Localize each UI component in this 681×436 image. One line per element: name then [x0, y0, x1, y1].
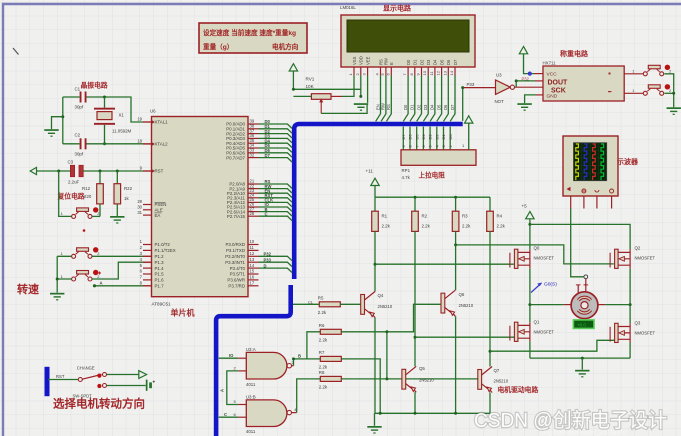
wire [116, 204, 118, 216]
svg-text:IO: IO [229, 353, 234, 358]
wire [536, 94, 543, 96]
svg-text:P3.6/WR: P3.6/WR [227, 278, 245, 283]
svg-text:VEE: VEE [365, 56, 370, 65]
capacitor C3 [68, 160, 84, 185]
svg-text:P3.4/T0: P3.4/T0 [230, 266, 246, 271]
svg-text:ALE: ALE [155, 208, 163, 213]
wire [92, 262, 143, 279]
wire [56, 256, 58, 292]
svg-text:2N5210: 2N5210 [378, 304, 393, 309]
wire A [95, 285, 144, 287]
wire [534, 73, 543, 75]
wire [143, 255, 152, 257]
wire [340, 303, 360, 305]
svg-text:13: 13 [442, 70, 447, 75]
wire EN [376, 76, 381, 122]
junction [528, 303, 531, 306]
svg-text:单片机: 单片机 [171, 308, 195, 318]
svg-text:D4: D4 [421, 134, 426, 140]
svg-text:RW: RW [381, 103, 386, 110]
svg-text:D5: D5 [436, 104, 441, 110]
wire D5 [437, 76, 442, 122]
junction [581, 357, 584, 360]
svg-text:2.2k: 2.2k [319, 385, 328, 390]
svg-text:XTAL2: XTAL2 [155, 142, 169, 147]
wire DOUT [516, 80, 535, 82]
wire RST [37, 170, 71, 172]
wire [238, 416, 246, 418]
ground [44, 129, 58, 137]
svg-text:17: 17 [250, 281, 255, 286]
junction [93, 284, 96, 287]
svg-text:P1.5: P1.5 [155, 272, 165, 277]
svg-text:2N5210: 2N5210 [459, 303, 474, 308]
resistor R1 [372, 211, 391, 231]
wire [529, 268, 531, 322]
resistor R6 [319, 323, 342, 343]
power [139, 371, 147, 379]
wire [341, 304, 441, 332]
svg-text:30: 30 [137, 205, 142, 210]
svg-text:+0.0: +0.0 [577, 322, 586, 327]
svg-text:D5: D5 [414, 134, 419, 140]
wire RW [259, 189, 293, 193]
svg-text:P3.2/INT0: P3.2/INT0 [225, 254, 245, 259]
svg-text:15: 15 [250, 269, 255, 274]
wire [535, 80, 543, 82]
svg-text:电机驱动电路: 电机驱动电路 [498, 385, 539, 394]
svg-text:29: 29 [137, 199, 142, 204]
wire RW [381, 76, 386, 122]
wire Q3 gate [490, 340, 615, 351]
wire CLK [259, 202, 293, 206]
svg-text:U3:A: U3:A [246, 347, 256, 352]
power [289, 64, 297, 71]
svg-text:P33: P33 [467, 82, 475, 87]
svg-text:上拉电阻: 上拉电阻 [419, 171, 446, 180]
power [519, 47, 527, 54]
wire [443, 127, 445, 150]
junction [672, 92, 675, 95]
wire [374, 413, 376, 426]
wire [341, 378, 478, 380]
svg-text:C: C [224, 412, 227, 417]
node mark [83, 229, 86, 232]
svg-text:D2: D2 [419, 59, 424, 65]
transistor Q7 [478, 367, 509, 393]
svg-text:示波器: 示波器 [616, 157, 639, 166]
svg-text:D1: D1 [441, 134, 446, 140]
power [526, 212, 534, 219]
wire IO [219, 357, 239, 359]
svg-text:RS: RS [378, 59, 383, 65]
motor [571, 292, 598, 319]
svg-text:D1: D1 [413, 59, 418, 65]
svg-text:显示电路: 显示电路 [383, 4, 412, 13]
wire D [259, 268, 293, 272]
svg-text:晶振电路: 晶振电路 [81, 81, 108, 90]
wire [374, 231, 376, 291]
junction [99, 170, 102, 173]
crystal X1 [94, 108, 132, 134]
svg-text:2.2k: 2.2k [319, 365, 328, 370]
svg-text:NOT: NOT [495, 99, 505, 104]
motor display [573, 320, 594, 329]
svg-text:RV1: RV1 [306, 77, 315, 82]
svg-text:13: 13 [250, 257, 255, 262]
wire [293, 303, 319, 305]
svg-text:CHANGE: CHANGE [77, 366, 95, 371]
junction [61, 115, 64, 118]
svg-text:P1.2: P1.2 [155, 254, 165, 259]
wire [624, 92, 643, 94]
button speed1 [61, 247, 101, 258]
logic gate U3:B 4011 [246, 395, 292, 435]
svg-text:11: 11 [250, 245, 255, 250]
wire VDD [360, 76, 362, 97]
wire [143, 121, 152, 123]
transistor Q1 [510, 320, 555, 342]
wire D0 [259, 124, 293, 128]
wire RST [48, 379, 78, 381]
wire RS [387, 76, 392, 122]
svg-text:Q1: Q1 [534, 320, 540, 325]
svg-text:XTAL1: XTAL1 [155, 120, 169, 125]
svg-text:D0: D0 [448, 134, 453, 140]
transistor Q2 [610, 246, 655, 269]
junction [454, 196, 457, 199]
resistor R12 [82, 184, 103, 204]
wire [414, 197, 416, 211]
svg-text:SCK: SCK [551, 87, 566, 94]
wire [436, 127, 438, 150]
op-amp U3 NOT [495, 73, 515, 105]
svg-text:10: 10 [422, 70, 427, 75]
IC U6 AT89C51 [137, 109, 258, 307]
junction [57, 170, 60, 173]
wire [664, 74, 673, 107]
bus D0-D7 [294, 124, 463, 279]
svg-text:1k: 1k [124, 196, 129, 201]
wire [530, 304, 564, 306]
wire P33 [462, 88, 464, 121]
wire [87, 97, 144, 122]
LCD U1 LM016L [340, 5, 475, 76]
wire [374, 186, 376, 198]
oscilloscope [563, 136, 618, 209]
wire [515, 81, 517, 87]
svg-text:P3.0/RXD: P3.0/RXD [225, 242, 245, 247]
wire [57, 256, 71, 279]
wire [341, 359, 380, 413]
svg-text:+5: +5 [522, 204, 528, 209]
svg-text:EN: EN [375, 104, 380, 110]
button reset [61, 207, 101, 218]
wire [83, 170, 143, 172]
wire [374, 197, 376, 211]
svg-text:U6: U6 [150, 109, 156, 114]
svg-text:VDD: VDD [359, 56, 364, 65]
svg-text:EA: EA [155, 213, 161, 218]
wire [416, 127, 418, 150]
wire [455, 316, 457, 413]
svg-text:LM016L: LM016L [340, 5, 356, 10]
junction [103, 96, 106, 99]
wire [664, 92, 673, 94]
svg-text:D6: D6 [408, 134, 413, 140]
ground [667, 107, 681, 115]
wire [402, 127, 404, 150]
svg-text:P3.3/INT1: P3.3/INT1 [225, 260, 245, 265]
junction [359, 95, 362, 98]
junction [489, 350, 492, 353]
ground [354, 103, 368, 111]
wire VCC [524, 54, 535, 74]
wire [87, 143, 144, 145]
svg-text:R5: R5 [318, 295, 324, 300]
wire [59, 171, 72, 216]
svg-text:转速: 转速 [17, 282, 39, 296]
junction [528, 223, 531, 226]
svg-text:D5: D5 [439, 59, 444, 65]
wire [331, 95, 342, 97]
svg-text:12: 12 [250, 251, 255, 256]
svg-text:28: 28 [250, 211, 255, 216]
wire [92, 255, 143, 257]
svg-text:19: 19 [137, 117, 142, 122]
wire [414, 392, 416, 413]
svg-text:D3: D3 [426, 59, 431, 65]
wire D5 [259, 148, 293, 152]
text box [199, 23, 307, 53]
wire [62, 97, 64, 144]
capacitor C2 [75, 133, 87, 157]
svg-text:RST: RST [155, 169, 164, 174]
wire D7 [259, 158, 293, 162]
svg-text:18: 18 [137, 139, 142, 144]
svg-text:NMOSFET: NMOSFET [635, 256, 656, 261]
svg-text:R4: R4 [497, 213, 503, 218]
svg-text:B: B [298, 354, 301, 359]
wire [238, 370, 246, 372]
node G0(S) probe [531, 282, 557, 293]
svg-text:R6: R6 [319, 323, 325, 328]
svg-text:U3:B: U3:B [246, 395, 256, 400]
wire [449, 127, 451, 150]
svg-text:R7: R7 [319, 350, 325, 355]
svg-text:Q4: Q4 [378, 293, 384, 298]
wire [605, 304, 630, 306]
svg-text:16: 16 [250, 275, 255, 280]
wire D3 [423, 76, 428, 122]
wire [489, 231, 491, 366]
wire [581, 358, 583, 370]
wire [578, 279, 586, 293]
junction [454, 412, 457, 415]
switch SW-SPDT [73, 373, 107, 399]
svg-text:D2: D2 [416, 104, 421, 110]
svg-text:E: E [389, 62, 394, 65]
wire Q2 gate [456, 245, 614, 264]
svg-text:D3: D3 [423, 104, 428, 110]
wire [63, 96, 80, 98]
svg-text:4.7k: 4.7k [402, 175, 411, 180]
svg-text:2N5210: 2N5210 [419, 378, 434, 383]
wire [463, 87, 496, 89]
wire [515, 86, 544, 88]
svg-text:P0.7/AD7: P0.7/AD7 [226, 155, 245, 160]
svg-text:12: 12 [436, 70, 441, 75]
wire [386, 332, 388, 379]
svg-text:P1.0/T2: P1.0/T2 [155, 242, 171, 247]
junction [414, 412, 417, 415]
wire VEE [367, 76, 369, 103]
wire [529, 219, 531, 249]
svg-text:2.2k: 2.2k [318, 310, 327, 315]
svg-text:VCC: VCC [547, 71, 558, 77]
wire [107, 385, 146, 387]
svg-text:D1: D1 [410, 104, 415, 110]
wire D4 [259, 143, 293, 147]
wire scope A [571, 209, 584, 277]
wire +11 rail [375, 196, 490, 198]
svg-text:C3: C3 [68, 160, 74, 165]
wire gnd rail [530, 357, 630, 359]
button [632, 65, 672, 76]
IC HX711 [543, 61, 625, 101]
wire [489, 197, 491, 211]
junction [515, 79, 518, 82]
transistor Q3 [610, 321, 655, 343]
node motor pin [584, 275, 588, 279]
svg-text:R1: R1 [382, 213, 388, 218]
wire [629, 268, 631, 323]
ground [367, 426, 381, 434]
svg-text:RP1: RP1 [402, 168, 411, 173]
wire [92, 215, 100, 217]
svg-text:10K: 10K [306, 84, 315, 89]
power [30, 167, 36, 174]
wire P33 [259, 262, 293, 266]
svg-text:D0: D0 [406, 59, 411, 65]
wire [598, 304, 605, 306]
junction [414, 196, 417, 199]
wire wiper [321, 105, 367, 114]
svg-text:A: A [220, 389, 225, 392]
svg-text:Q2: Q2 [635, 246, 641, 251]
wire [293, 95, 311, 97]
wire [564, 304, 571, 306]
svg-text:31: 31 [137, 210, 142, 215]
wire [422, 127, 424, 150]
wire [238, 357, 246, 359]
wire GND [525, 95, 536, 103]
wire [429, 127, 431, 150]
svg-text:Q5: Q5 [419, 366, 425, 371]
svg-text:P1.6: P1.6 [155, 278, 165, 283]
svg-text:+11: +11 [366, 169, 374, 174]
junction [385, 377, 388, 380]
bus [216, 285, 291, 436]
svg-text:2.2k: 2.2k [462, 223, 471, 228]
svg-text:2.2k: 2.2k [319, 338, 328, 343]
svg-text:D7: D7 [453, 59, 458, 65]
svg-text:P1.7: P1.7 [155, 284, 165, 289]
svg-text:P3.5/T1: P3.5/T1 [230, 272, 246, 277]
svg-text:Q3: Q3 [635, 321, 641, 326]
svg-text:R8: R8 [319, 370, 325, 375]
wire A [227, 371, 238, 405]
bus stub [45, 367, 50, 396]
svg-text:blog.csdn.net/weixin_20238867: blog.csdn.net/weixin_20238867 [540, 430, 627, 436]
svg-text:4011: 4011 [246, 382, 256, 387]
wire [143, 143, 152, 145]
transistor Q6 [441, 290, 474, 316]
svg-text:10: 10 [250, 239, 255, 244]
transistor Q5 [402, 366, 434, 392]
junction [103, 142, 106, 145]
wire [143, 285, 152, 287]
resistor R4 [487, 211, 506, 231]
resistor R5 [318, 295, 341, 315]
svg-text:2.2k: 2.2k [497, 223, 506, 228]
svg-text:PSEN: PSEN [155, 202, 167, 207]
svg-text:D7: D7 [401, 134, 406, 140]
svg-text:X1: X1 [119, 113, 125, 118]
wire D4 [430, 76, 435, 122]
svg-text:D3: D3 [428, 134, 433, 140]
svg-text:D4: D4 [433, 59, 438, 65]
svg-text:14: 14 [449, 70, 454, 75]
junction [292, 357, 295, 360]
svg-text:P1.1/T2EX: P1.1/T2EX [155, 248, 176, 253]
wire [116, 171, 118, 184]
svg-text:RST: RST [56, 374, 65, 379]
wire RS [259, 184, 293, 188]
svg-text:称重电路: 称重电路 [560, 49, 589, 58]
svg-text:30pf: 30pf [75, 152, 84, 157]
svg-text:D6: D6 [446, 59, 451, 65]
power [371, 178, 379, 185]
svg-text:D: D [264, 263, 267, 268]
svg-text:选择电机转动方向: 选择电机转动方向 [53, 397, 145, 411]
wire [99, 171, 101, 184]
resistor R22 [114, 184, 133, 204]
svg-text:11.0592M: 11.0592M [112, 129, 132, 134]
wire P32 [259, 256, 293, 260]
svg-text:VSS: VSS [352, 56, 357, 65]
svg-text:2.2k: 2.2k [422, 223, 431, 228]
resistor pack RP1 [401, 150, 476, 180]
wire +5 rail [530, 224, 630, 249]
svg-text:14: 14 [250, 263, 255, 268]
potentiometer RV1 [306, 77, 332, 114]
svg-text:R12: R12 [82, 186, 91, 191]
wire [52, 117, 63, 129]
svg-text:DOUT: DOUT [548, 79, 569, 86]
svg-text:重量（g）: 重量（g） [203, 42, 233, 51]
svg-text:2.2uF: 2.2uF [68, 180, 80, 185]
wire D0 [403, 76, 408, 122]
svg-text:D2: D2 [434, 134, 439, 140]
svg-text:2N5210: 2N5210 [494, 379, 509, 384]
wire D6 [259, 153, 293, 157]
svg-text:P33: P33 [264, 257, 272, 262]
svg-text:P3.1/TXD: P3.1/TXD [226, 248, 245, 253]
wire D2 [417, 76, 422, 122]
svg-text:R2: R2 [422, 213, 428, 218]
wire B [294, 359, 321, 366]
